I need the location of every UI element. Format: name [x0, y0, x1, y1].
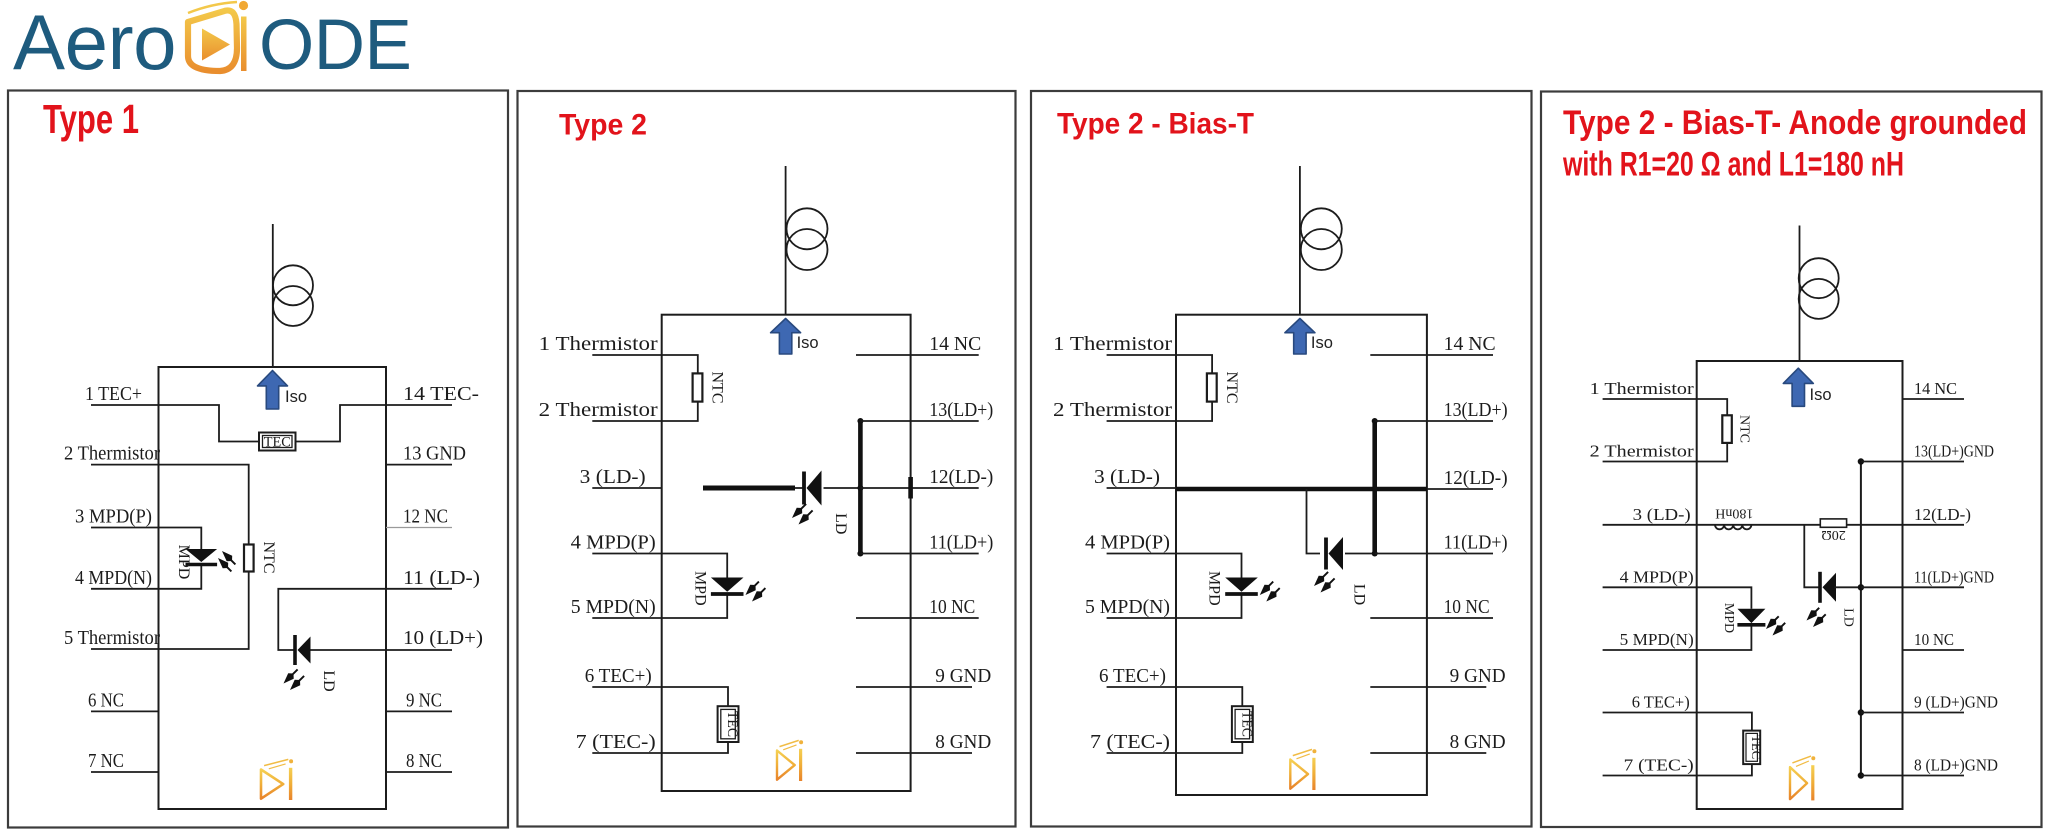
svg-text:7 (TEC-): 7 (TEC-) [1624, 756, 1694, 775]
pin 9 wire P2 [856, 686, 972, 688]
pin 2 label P1 [64, 443, 160, 465]
svg-text:14 NC: 14 NC [1444, 333, 1496, 355]
pin 5 label P3 [1085, 596, 1170, 618]
pin 1 label P1 [85, 383, 142, 405]
svg-text:13(LD+): 13(LD+) [1444, 399, 1508, 421]
pin 1 wire P2 [592, 354, 661, 356]
pin 6 wire P4 [1603, 712, 1697, 714]
svg-text:5 MPD(N): 5 MPD(N) [1085, 596, 1170, 618]
pin 8 wire P2 [856, 752, 972, 754]
svg-text:4 MPD(N): 4 MPD(N) [75, 567, 152, 589]
pin 8 wire P3 [1370, 752, 1486, 754]
svg-text:3 (LD-): 3 (LD-) [1094, 466, 1160, 488]
LD light arrows P1 [284, 669, 305, 690]
pin 8 label P2 [935, 731, 991, 753]
logo mark P4 [1790, 756, 1815, 800]
svg-text:180nH: 180nH [1715, 506, 1753, 521]
MPD label P1 [175, 545, 192, 580]
logo mark P2 [777, 740, 803, 781]
svg-text:9 (LD+)GND: 9 (LD+)GND [1914, 693, 1998, 712]
pin 3 label P3 [1094, 466, 1160, 488]
pin 10 wire P4 [1903, 649, 1965, 651]
LD label P3 [1351, 584, 1368, 605]
bus junction P4 r1 [1858, 458, 1864, 464]
TEC wiring P2 [662, 687, 728, 753]
fiber loop P2 [787, 208, 828, 270]
laser diode LD P3 [1326, 537, 1343, 570]
Iso label P1 [285, 388, 307, 406]
pin 10 label P3 [1444, 596, 1490, 618]
svg-text:6 NC: 6 NC [88, 689, 124, 711]
pin 4 label P2 [571, 532, 656, 554]
pin 11 label P4 [1914, 567, 1994, 586]
svg-text:10 (LD+): 10 (LD+) [403, 627, 483, 649]
TEC label P1 [264, 435, 291, 451]
pin 1 wire P4 [1603, 398, 1697, 400]
LD light arrows P3 [1314, 572, 1335, 593]
pin 11 wire P4 [1861, 586, 1964, 588]
MPD wiring P1 [159, 528, 202, 589]
svg-text:9 NC: 9 NC [406, 689, 442, 711]
MPD label P2 [691, 571, 708, 606]
svg-text:Type 2 - Bias-T: Type 2 - Bias-T [1057, 108, 1254, 141]
svg-text:ODE: ODE [259, 6, 411, 85]
resistor R1 20ohm P4 [1820, 519, 1846, 527]
pin 9 label P3 [1450, 665, 1506, 687]
svg-text:TEC: TEC [264, 435, 291, 451]
pin 3 wire P4 [1603, 524, 1697, 526]
svg-text:5 MPD(N): 5 MPD(N) [571, 596, 656, 618]
pin 1 wire P1 [91, 404, 159, 406]
NTC label P4 [1737, 415, 1752, 443]
panel 2 frame [518, 91, 1016, 827]
Iso arrow P4 [1783, 368, 1813, 406]
pin 13 label P4 [1914, 442, 1994, 461]
svg-text:Type 2: Type 2 [559, 109, 647, 142]
pin 9 wire P3 [1370, 686, 1486, 688]
pin 4 wire P3 [1107, 553, 1176, 555]
NTC wiring P3 [1176, 355, 1212, 421]
Iso label P2 [797, 334, 819, 352]
pin 11 label P2 [929, 532, 993, 554]
NTC thermistor P2 [693, 373, 703, 401]
TEC label P2 [724, 711, 740, 737]
pin 2 wire P2 [592, 420, 661, 422]
junction 13 P2 [857, 418, 863, 424]
svg-text:14 NC: 14 NC [1914, 379, 1957, 398]
svg-text:13(LD+)GND: 13(LD+)GND [1914, 442, 1994, 461]
pin 1 label P2 [539, 333, 658, 355]
svg-text:LD: LD [320, 670, 337, 691]
svg-text:8 NC: 8 NC [406, 750, 442, 772]
pin 12 wire P2 [860, 487, 978, 489]
svg-text:Iso: Iso [1810, 386, 1832, 404]
svg-text:10 NC: 10 NC [929, 596, 975, 618]
svg-text:1 TEC+: 1 TEC+ [85, 383, 142, 405]
pin 8 wire P1 [386, 771, 452, 773]
svg-text:4 MPD(P): 4 MPD(P) [1620, 567, 1694, 586]
NTC wiring P1 [159, 465, 249, 649]
svg-text:12 NC: 12 NC [403, 506, 448, 528]
svg-text:NTC: NTC [709, 372, 726, 404]
svg-text:8 GND: 8 GND [1450, 731, 1506, 753]
junction 11 P2 [857, 551, 863, 557]
pin 5 wire P3 [1107, 617, 1176, 619]
pin 7 wire P3 [1107, 752, 1176, 754]
laser diode LD P4 [1820, 572, 1836, 603]
pin 7 wire P4 [1603, 775, 1697, 777]
pin 14 wire P1 [386, 404, 452, 406]
svg-text:Type 2 - Bias-T- Anode grounde: Type 2 - Bias-T- Anode grounded [1563, 104, 2027, 142]
svg-text:LD: LD [1840, 608, 1855, 627]
pin 8 label P3 [1450, 731, 1506, 753]
svg-text:12(LD-): 12(LD-) [1914, 505, 1971, 524]
svg-text:NTC: NTC [1737, 415, 1752, 443]
logo mark P3 [1290, 749, 1316, 790]
pin 14 label P4 [1914, 379, 1957, 398]
svg-text:Iso: Iso [285, 388, 307, 406]
svg-text:1 Thermistor: 1 Thermistor [1053, 333, 1172, 355]
bus junction P4 r3 [1858, 584, 1864, 590]
pin 1 label P3 [1053, 333, 1172, 355]
panel 3 frame [1031, 91, 1532, 827]
pin 11 label P3 [1444, 532, 1508, 554]
TEC element P1 [259, 433, 296, 451]
pin 2 wire P3 [1107, 420, 1176, 422]
bus junction P4 r5 [1858, 709, 1864, 715]
pin 4 label P3 [1085, 532, 1170, 554]
logo mark P1 [261, 759, 293, 800]
title line 1 P4 [1563, 104, 2027, 142]
svg-text:LD: LD [832, 513, 849, 534]
MPD wiring P4 [1697, 587, 1752, 650]
fiber loop P4 [1799, 258, 1839, 319]
MPD light arrows P3 [1260, 582, 1280, 602]
case tie mark P2 [908, 477, 913, 499]
svg-text:1 Thermistor: 1 Thermistor [1590, 379, 1695, 398]
pin 7 label P3 [1090, 731, 1170, 753]
GND bus P4 [1860, 462, 1862, 776]
TEC element P2 [718, 706, 739, 742]
MPD light arrows P4 [1766, 616, 1785, 635]
pin 13 label P3 [1444, 399, 1508, 421]
pin 2 label P2 [539, 399, 658, 421]
LD light arrows P2 [792, 504, 813, 525]
svg-text:LD: LD [1351, 584, 1368, 605]
pin 3 inner wire P4 [1697, 524, 1861, 526]
svg-text:4 MPD(P): 4 MPD(P) [571, 532, 656, 554]
LD+ bus P3 [1372, 421, 1377, 554]
LD drop wire P3 [1307, 489, 1321, 554]
pin 7 wire P1 [91, 771, 159, 773]
pin 6 wire P2 [592, 686, 661, 688]
Iso arrow P1 [258, 371, 288, 410]
Iso label P3 [1311, 334, 1333, 352]
svg-text:MPD: MPD [1206, 571, 1223, 606]
pin 7 label P4 [1624, 756, 1694, 775]
svg-text:13 GND: 13 GND [403, 443, 466, 465]
pin 13 wire P3 [1375, 420, 1493, 422]
pin 2 label P3 [1053, 399, 1172, 421]
svg-text:3 MPD(P): 3 MPD(P) [75, 506, 152, 528]
pin 10 label P2 [929, 596, 975, 618]
pin 6 label P1 [88, 689, 124, 711]
pin 6 label P3 [1099, 665, 1166, 687]
panel 1 frame [8, 91, 508, 828]
pin 3 label P4 [1633, 505, 1691, 524]
svg-text:MPD: MPD [175, 545, 192, 580]
svg-text:8 (LD+)GND: 8 (LD+)GND [1914, 756, 1998, 775]
svg-text:with R1=20 Ω and L1=180 nH: with R1=20 Ω and L1=180 nH [1562, 146, 1904, 184]
panel 4 frame [1541, 92, 2042, 828]
pin 13 wire P2 [860, 420, 978, 422]
pin 7 label P1 [88, 750, 124, 772]
pin 10 label P1 [403, 627, 483, 649]
svg-text:10 NC: 10 NC [1914, 630, 1954, 649]
pin 14 wire P2 [856, 354, 979, 356]
TEC wiring P3 [1176, 687, 1242, 753]
svg-text:2 Thermistor: 2 Thermistor [64, 443, 160, 465]
fiber pigtail P4 [1799, 226, 1801, 362]
pin 13 wire P1 [386, 464, 452, 466]
photodiode MPD P1 [186, 549, 218, 565]
svg-text:20Ω: 20Ω [1821, 527, 1845, 542]
NTC label P1 [260, 542, 277, 574]
pin 14 wire P3 [1370, 354, 1493, 356]
LD anode wire P3 [1345, 553, 1375, 555]
svg-text:9 GND: 9 GND [935, 665, 991, 687]
LD label P2 [832, 513, 849, 534]
junction 13 P3 [1372, 418, 1378, 424]
svg-text:6 TEC+): 6 TEC+) [1099, 665, 1166, 687]
svg-text:11 (LD-): 11 (LD-) [403, 567, 480, 589]
MPD light arrows P2 [746, 582, 766, 602]
svg-text:6 TEC+): 6 TEC+) [1632, 693, 1690, 712]
pin 5 label P2 [571, 596, 656, 618]
pin 14 label P2 [929, 333, 981, 355]
svg-text:1 Thermistor: 1 Thermistor [539, 333, 658, 355]
svg-text:NTC: NTC [260, 542, 277, 574]
inductor label 180nH P4 [1715, 506, 1753, 521]
svg-text:Iso: Iso [1311, 334, 1333, 352]
pin 9 wire P4 [1861, 712, 1964, 714]
pin 8 label P4 [1914, 756, 1998, 775]
svg-text:8 GND: 8 GND [935, 731, 991, 753]
pin 13 label P1 [403, 443, 466, 465]
fiber pigtail P3 [1299, 166, 1301, 315]
pin 10 label P4 [1914, 630, 1954, 649]
svg-text:4 MPD(P): 4 MPD(P) [1085, 532, 1170, 554]
pin 12 label P1 [403, 506, 448, 528]
pin 12 label P3 [1444, 467, 1508, 489]
TEC label P4 [1749, 735, 1764, 759]
svg-text:6 TEC+): 6 TEC+) [585, 665, 652, 687]
laser diode LD P2 [804, 471, 822, 506]
title Type 1 [43, 96, 139, 142]
pin 8 label P1 [406, 750, 442, 772]
photodiode MPD P4 [1737, 609, 1765, 625]
pin 12 label P4 [1914, 505, 1971, 524]
pin 3 label P2 [580, 466, 646, 488]
pin 2 wire P1 [91, 464, 159, 466]
svg-text:7 (TEC-): 7 (TEC-) [1090, 731, 1170, 753]
TEC element P4 [1743, 731, 1760, 765]
pin 5 wire P2 [592, 617, 661, 619]
pin 6 wire P3 [1107, 686, 1176, 688]
pin 5 label P1 [64, 627, 160, 649]
svg-text:5 MPD(N): 5 MPD(N) [1620, 630, 1694, 649]
svg-text:Iso: Iso [797, 334, 819, 352]
svg-text:TEC: TEC [1749, 735, 1764, 759]
MPD light arrows P1 [218, 551, 235, 571]
pin 1 wire P3 [1107, 354, 1176, 356]
fiber pigtail P2 [785, 166, 787, 315]
LD- thick wire P2 [703, 486, 804, 491]
pin 9 label P2 [935, 665, 991, 687]
pin 14 label P3 [1444, 333, 1496, 355]
pin 3 wire P1 [91, 527, 159, 529]
NTC thermistor P4 [1722, 415, 1732, 443]
pin 4 wire P4 [1603, 586, 1697, 588]
svg-text:13(LD+): 13(LD+) [929, 399, 993, 421]
pin 12 wire P1 [386, 527, 452, 529]
pin 1 label P4 [1590, 379, 1695, 398]
LD label P4 [1840, 608, 1855, 627]
LD- thick wire P3 [1176, 487, 1427, 492]
pin 11 wire P3 [1375, 553, 1493, 555]
svg-text:5 Thermistor: 5 Thermistor [64, 627, 160, 649]
TEC wiring P1 [159, 405, 387, 442]
NTC label P3 [1223, 372, 1240, 404]
pin 6 label P2 [585, 665, 652, 687]
svg-text:10 NC: 10 NC [1444, 596, 1490, 618]
Iso arrow P2 [771, 319, 801, 355]
junction 12 P2 [857, 485, 863, 491]
svg-text:3 (LD-): 3 (LD-) [1633, 505, 1691, 524]
svg-text:2 Thermistor: 2 Thermistor [1053, 399, 1172, 421]
laser diode LD P1 [295, 635, 311, 665]
package outline P1 [159, 367, 387, 809]
TEC wiring P4 [1697, 713, 1752, 776]
NTC thermistor P1 [244, 545, 254, 572]
svg-text:2 Thermistor: 2 Thermistor [539, 399, 658, 421]
pin 5 wire P1 [91, 648, 159, 650]
svg-text:Type 1: Type 1 [43, 96, 139, 142]
LD anode wire P2 [824, 487, 861, 489]
pin 3 wire P2 [592, 487, 661, 489]
LD label P1 [320, 670, 337, 691]
pin 10 wire P2 [856, 617, 979, 619]
pin 4 label P1 [75, 567, 152, 589]
pin 5 label P4 [1620, 630, 1694, 649]
pin 3 wire P3 [1107, 487, 1176, 489]
pin 11 label P1 [403, 567, 480, 589]
svg-text:11(LD+)GND: 11(LD+)GND [1914, 567, 1994, 586]
title line 2 P4 [1562, 146, 1904, 184]
pin 3 label P1 [75, 506, 152, 528]
svg-text:12(LD-): 12(LD-) [1444, 467, 1508, 489]
LD+ bus P2 [858, 421, 863, 554]
pin 12 wire P3 [1427, 488, 1493, 490]
fiber pigtail P1 [272, 224, 274, 367]
pin 11 wire P2 [860, 553, 978, 555]
package outline P2 [662, 315, 911, 791]
pin 4 label P4 [1620, 567, 1694, 586]
svg-text:14 NC: 14 NC [929, 333, 981, 355]
LD light arrows P4 [1807, 608, 1826, 627]
LD anode wire P4 [1834, 586, 1861, 588]
svg-text:7 NC: 7 NC [88, 750, 124, 772]
pin 14 wire P4 [1903, 398, 1965, 400]
AeroDIODE logo [13, 0, 411, 86]
photodiode MPD P2 [711, 578, 744, 595]
pin 13 label P2 [929, 399, 993, 421]
MPD wiring P2 [662, 554, 728, 619]
pin 10 wire P3 [1370, 617, 1493, 619]
pin 12 label P2 [929, 466, 993, 488]
NTC thermistor P3 [1207, 373, 1217, 401]
inductor L1 180nH P4 [1715, 525, 1751, 530]
svg-text:Aero: Aero [13, 0, 176, 86]
pin 8 wire P4 [1861, 775, 1964, 777]
pin 2 label P4 [1590, 442, 1695, 461]
NTC wiring P4 [1697, 399, 1728, 462]
pin 5 wire P4 [1603, 649, 1697, 651]
svg-text:TEC: TEC [1238, 711, 1254, 737]
fiber loop P1 [273, 265, 313, 326]
package outline P3 [1176, 315, 1427, 795]
pin 6 wire P1 [91, 710, 159, 712]
NTC label P2 [709, 372, 726, 404]
resistor label 20ohm P4 [1821, 527, 1845, 542]
MPD label P3 [1206, 571, 1223, 606]
photodiode MPD P3 [1225, 578, 1258, 595]
pin 13 wire P4 [1861, 461, 1964, 463]
svg-text:11(LD+): 11(LD+) [1444, 532, 1508, 554]
Iso label P4 [1810, 386, 1832, 404]
NTC wiring P2 [662, 355, 698, 421]
Iso arrow P3 [1285, 319, 1315, 355]
pin 4 wire P1 [91, 588, 159, 590]
pin 2 wire P4 [1603, 461, 1697, 463]
LD wiring P1 [278, 589, 452, 650]
svg-text:2 Thermistor: 2 Thermistor [1590, 442, 1695, 461]
pin 7 label P2 [576, 731, 656, 753]
TEC element P3 [1232, 706, 1253, 742]
svg-text:12(LD-): 12(LD-) [929, 466, 993, 488]
pin 9 label P4 [1914, 693, 1998, 712]
pin 12 outer wire P4 [1861, 524, 1964, 526]
pin 4 wire P2 [592, 553, 661, 555]
package outline P4 [1697, 361, 1903, 809]
fiber loop P3 [1301, 208, 1342, 270]
pin 14 label P1 [403, 383, 479, 405]
svg-text:3 (LD-): 3 (LD-) [580, 466, 646, 488]
title Type 2 - Bias-T [1057, 108, 1254, 141]
TEC label P3 [1238, 711, 1254, 737]
svg-text:MPD: MPD [1721, 603, 1736, 633]
LD drop wire P4 [1804, 525, 1820, 588]
pin 7 wire P2 [592, 752, 661, 754]
MPD wiring P3 [1176, 554, 1242, 619]
junction 11 P3 [1372, 551, 1378, 557]
svg-text:14 TEC-: 14 TEC- [403, 383, 479, 405]
svg-text:TEC: TEC [724, 711, 740, 737]
svg-text:9 GND: 9 GND [1450, 665, 1506, 687]
svg-text:MPD: MPD [691, 571, 708, 606]
svg-text:7 (TEC-): 7 (TEC-) [576, 731, 656, 753]
svg-text:NTC: NTC [1223, 372, 1240, 404]
